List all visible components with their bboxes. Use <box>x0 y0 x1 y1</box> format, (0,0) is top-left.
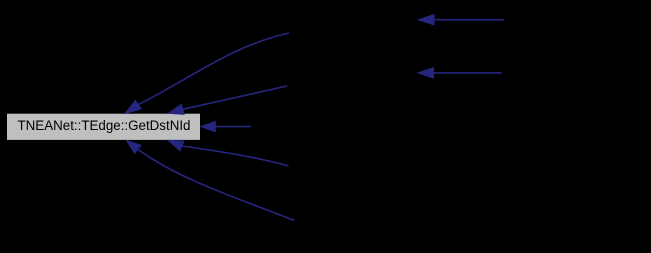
node TNEANet::TEdge::GetDstNId (current node box) <box>7 113 201 140</box>
arrowhead into box top-right <box>169 104 185 114</box>
arrowhead into box bottom-right <box>168 140 184 151</box>
wire: edge from caller 3 (horizontal into right edge) <box>215 126 251 128</box>
arrowhead into box bottom-left <box>127 140 142 153</box>
wire: edge rank3 caller B (second horizontal arrow) <box>434 72 502 74</box>
wire: edge from caller 2 <box>183 86 287 109</box>
arrowhead into box top-left <box>125 100 141 113</box>
arrowhead B <box>418 68 434 78</box>
arrowhead A <box>419 15 435 25</box>
arrowhead into box right edge <box>201 121 215 131</box>
wire: edge from caller 1 (long top curve) <box>138 33 289 105</box>
wire: edge from caller 5 (long bottom curve) <box>138 149 295 220</box>
wire: edge rank3 caller A (top horizontal arrow) <box>434 19 504 21</box>
wire: edge from caller 4 <box>182 146 289 166</box>
svg-text:TNEANet::TEdge::GetDstNId: TNEANet::TEdge::GetDstNId <box>18 118 191 134</box>
